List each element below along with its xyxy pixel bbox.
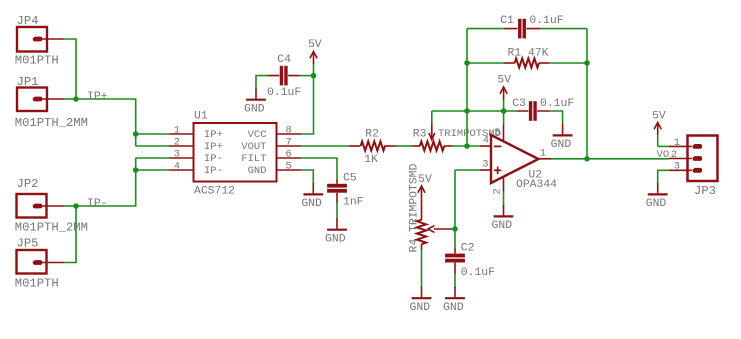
junction 5V / op-amp pin5 at mid row [501,108,507,114]
junction IP- at JP2 [73,203,79,209]
svg-text:1: 1 [674,137,680,149]
svg-text:ACS712: ACS712 [194,185,235,197]
svg-text:1: 1 [540,148,546,160]
wire U1 pin5 to GND [301,170,314,184]
svg-text:1: 1 [174,125,180,137]
capacitor C4 [268,66,300,86]
svg-text:R1 47K: R1 47K [508,47,549,59]
wire IP- junction to U1 left rail [76,158,136,206]
ground GND (U2 pin2) [492,205,514,232]
wire to U1 pin 1 [136,133,169,135]
wire R3 wiper up to feedback row [431,111,433,124]
connector JP5 [17,250,64,274]
connector JP4 [17,27,64,52]
wire C2 bottom to GND [454,274,456,288]
svg-text:0.1uF: 0.1uF [529,15,563,27]
ground GND (C3) [551,124,573,151]
capacitor C2 [445,248,465,275]
wire op-amp pin2 to GND [503,192,505,208]
wire R4 wiper to junction [452,228,455,230]
IC U1 ACS712 body [169,123,301,182]
svg-text:IP+: IP+ [204,141,223,153]
connector JP3 [669,136,718,182]
trimpot R4 [417,203,452,251]
svg-text:M01PTH_2MM: M01PTH_2MM [15,220,88,234]
wire JP4 to IP+ junction [64,39,77,99]
ground GND (R4) [410,287,432,314]
svg-text:0.1uF: 0.1uF [540,98,574,110]
svg-text:U1: U1 [194,111,208,123]
wire plus rail down to R4 wiper [454,170,456,229]
power 5V (JP3) [654,122,661,146]
svg-text:0.1uF: 0.1uF [267,87,301,99]
capacitor C3 [516,101,549,121]
wire to U1 pin 4 [136,169,169,171]
svg-text:JP5: JP5 [17,237,39,251]
ground GND (JP3) [646,183,668,210]
svg-text:JP2: JP2 [17,177,39,191]
wire feedback top row (C1) [467,28,587,30]
svg-text:1nF: 1nF [343,196,364,208]
junction output / feedback [584,156,590,162]
wire R4 bottom to GND [421,250,423,288]
wire R2 to R3 [396,145,412,147]
wire op-amp pin5 to 5V junction [503,111,505,125]
trimpot R3 [412,124,453,151]
svg-text:1K: 1K [364,154,378,166]
svg-text:5V: 5V [652,110,666,122]
junction VCC rail / C4 [311,73,317,79]
svg-text:C2: C2 [461,242,475,254]
svg-text:2: 2 [671,149,677,161]
wire to U1 pin 3 [136,157,169,159]
wire JP2 pin to junction [64,205,77,207]
svg-text:IP-: IP- [204,153,223,165]
svg-text:6: 6 [286,149,292,161]
junction IP+ rail pin1 branch [133,131,139,137]
power 5V (above C4) [310,51,317,75]
svg-text:VO: VO [657,149,670,161]
svg-text:FILT: FILT [241,153,266,165]
svg-text:4: 4 [174,161,180,173]
svg-text:8: 8 [286,125,292,137]
power 5V (op-amp) [500,87,507,111]
svg-text:5V: 5V [497,75,511,87]
wire junction down to C2 [454,229,456,248]
svg-text:JP1: JP1 [17,75,39,89]
wire mid row (wiper to C3) [432,110,517,112]
connector JP2 [17,194,64,218]
svg-text:5V: 5V [418,174,432,186]
wire JP1 pin to junction [64,98,77,100]
ground GND (C5) [325,218,347,245]
svg-text:R2: R2 [365,129,379,141]
wire R3 to op-amp minus input [453,145,481,147]
junction IP- rail pin4 branch [133,167,139,173]
svg-text:C3: C3 [512,98,526,110]
junction R4 wiper / C2 [452,226,458,232]
wire U1 pin7 VOUT to R2 [301,145,350,147]
svg-text:5: 5 [286,161,292,173]
capacitor C1 [504,19,541,39]
svg-text:5: 5 [494,127,500,139]
svg-text:GND: GND [248,165,267,177]
connector JP1 [17,88,64,112]
resistor R2 [349,141,396,150]
ground GND (C2) [443,287,465,314]
svg-text:M01PTH: M01PTH [15,53,59,67]
svg-text:IP-: IP- [87,198,108,210]
wire to U1 pin 2 [136,145,169,147]
svg-text:JP3: JP3 [694,184,716,198]
ground GND (U1 pin5) [301,183,323,210]
svg-text:C1: C1 [500,15,514,27]
svg-text:IP+: IP+ [87,91,108,103]
wire JP5 to IP- junction [64,206,77,263]
svg-text:2: 2 [174,137,180,149]
svg-text:0.1uF: 0.1uF [461,267,495,279]
svg-text:3: 3 [174,149,180,161]
junction R1 left [464,60,470,66]
svg-text:C5: C5 [343,173,357,185]
svg-text:M01PTH_2MM: M01PTH_2MM [15,116,88,130]
capacitor C5 [327,180,347,204]
wire U1 pin6 FILT to C5 [301,158,338,180]
svg-text:JP4: JP4 [17,14,39,28]
power 5V (R4) [418,186,425,203]
svg-text:IP+: IP+ [204,129,223,141]
op-amp U2 body [480,125,551,192]
wire feedback right rail [586,29,588,159]
svg-text:3: 3 [482,158,488,170]
junction IP+ at JP1 [73,96,79,102]
wire C3 to GND [550,111,563,125]
wire U1 pin8 to 5V rail [301,76,314,134]
svg-text:2: 2 [491,188,503,194]
svg-text:5V: 5V [308,39,322,51]
wire C5 bottom to GND [336,203,338,219]
svg-text:R3: R3 [413,129,427,141]
svg-text:OPA344: OPA344 [516,179,557,191]
wire IP+ junction to U1 left rail [76,99,136,146]
ground GND (C4) [244,88,266,115]
wire C4 to rail [300,75,314,77]
wire C4 left to GND [256,76,268,89]
wire feedback left rail [466,29,468,146]
wire op-amp plus input [455,169,480,171]
svg-text:4: 4 [483,135,489,147]
svg-text:7: 7 [286,137,292,149]
svg-text:M01PTH: M01PTH [15,277,59,291]
wire feedback R1 row [467,62,587,64]
wire op-amp output to JP3 pin2 [551,158,669,160]
resistor R1 [504,58,550,67]
svg-text:VOUT: VOUT [241,141,266,153]
junction minus input / feedback rail [464,143,470,149]
wire JP3 pin3 to GND [658,170,669,183]
svg-text:IP-: IP- [204,165,223,177]
junction left rail at mid row [464,108,470,114]
svg-text:3: 3 [674,161,680,173]
svg-text:C4: C4 [277,54,291,66]
junction R1 right [584,60,590,66]
wire 5V to JP3 pin1 [658,145,669,147]
svg-text:VCC: VCC [248,129,267,141]
